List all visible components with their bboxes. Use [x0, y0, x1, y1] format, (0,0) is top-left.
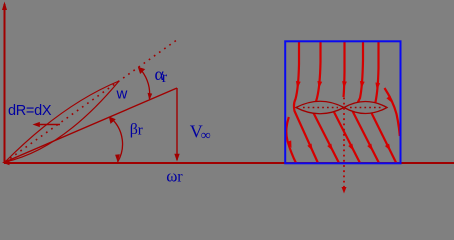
alpha_r arc arrowheads [138, 67, 145, 74]
svg-text:r: r [138, 122, 143, 138]
streamline P1 arrowheads [296, 81, 301, 89]
streamline P5 [371, 41, 397, 164]
streamline stub at left edge [286, 117, 296, 163]
svg-text:r: r [177, 168, 183, 185]
lens centerline right (dotted) [350, 107, 382, 109]
streamline P1 [294, 41, 318, 163]
streamline P3 (centre) [334, 41, 360, 163]
chord dotted line [5, 38, 179, 162]
streamline P4 [353, 41, 379, 163]
V-infinity arrowhead [174, 154, 179, 162]
control volume rectangle [285, 41, 400, 163]
svg-text:dR=dX: dR=dX [8, 103, 52, 119]
beta_r arc [112, 119, 123, 162]
right edge streamline arrowhead [386, 96, 392, 103]
horizontal axis (omega-r direction) [4, 162, 454, 164]
vortex lens left [296, 101, 344, 114]
svg-text:r: r [162, 69, 168, 86]
vortex lens right [344, 102, 387, 114]
wake axis arrowhead [342, 187, 347, 194]
airfoil blade element [5, 81, 119, 162]
svg-text:β: β [130, 121, 138, 138]
streamline P2 arrowheads [317, 81, 322, 89]
vertical axis [4, 4, 6, 162]
dR=dX arrow [38, 124, 60, 126]
wake axis dotted line [343, 98, 345, 189]
svg-text:w: w [116, 86, 128, 103]
left edge streamline arrowhead [287, 140, 292, 148]
streamline P2 [313, 41, 339, 163]
svg-text:∞: ∞ [201, 129, 211, 144]
V-infinity line [176, 88, 178, 160]
lens centerline left (dotted) [303, 107, 338, 109]
svg-text:ω: ω [166, 167, 177, 186]
wire: relative wind w line (hypotenuse) [5, 88, 177, 162]
streamline P5 arrowheads [375, 83, 380, 91]
vertical axis arrowhead [2, 2, 7, 11]
beta_r arc arrowheads [109, 116, 116, 124]
streamline P4 arrowheads [360, 81, 365, 89]
streamline at right edge curving into border [385, 88, 400, 136]
alpha_r arc [142, 71, 150, 100]
origin arrowhead (omega-r tip, pointing left) [2, 160, 10, 166]
streamline P3 arrowheads [342, 81, 347, 88]
